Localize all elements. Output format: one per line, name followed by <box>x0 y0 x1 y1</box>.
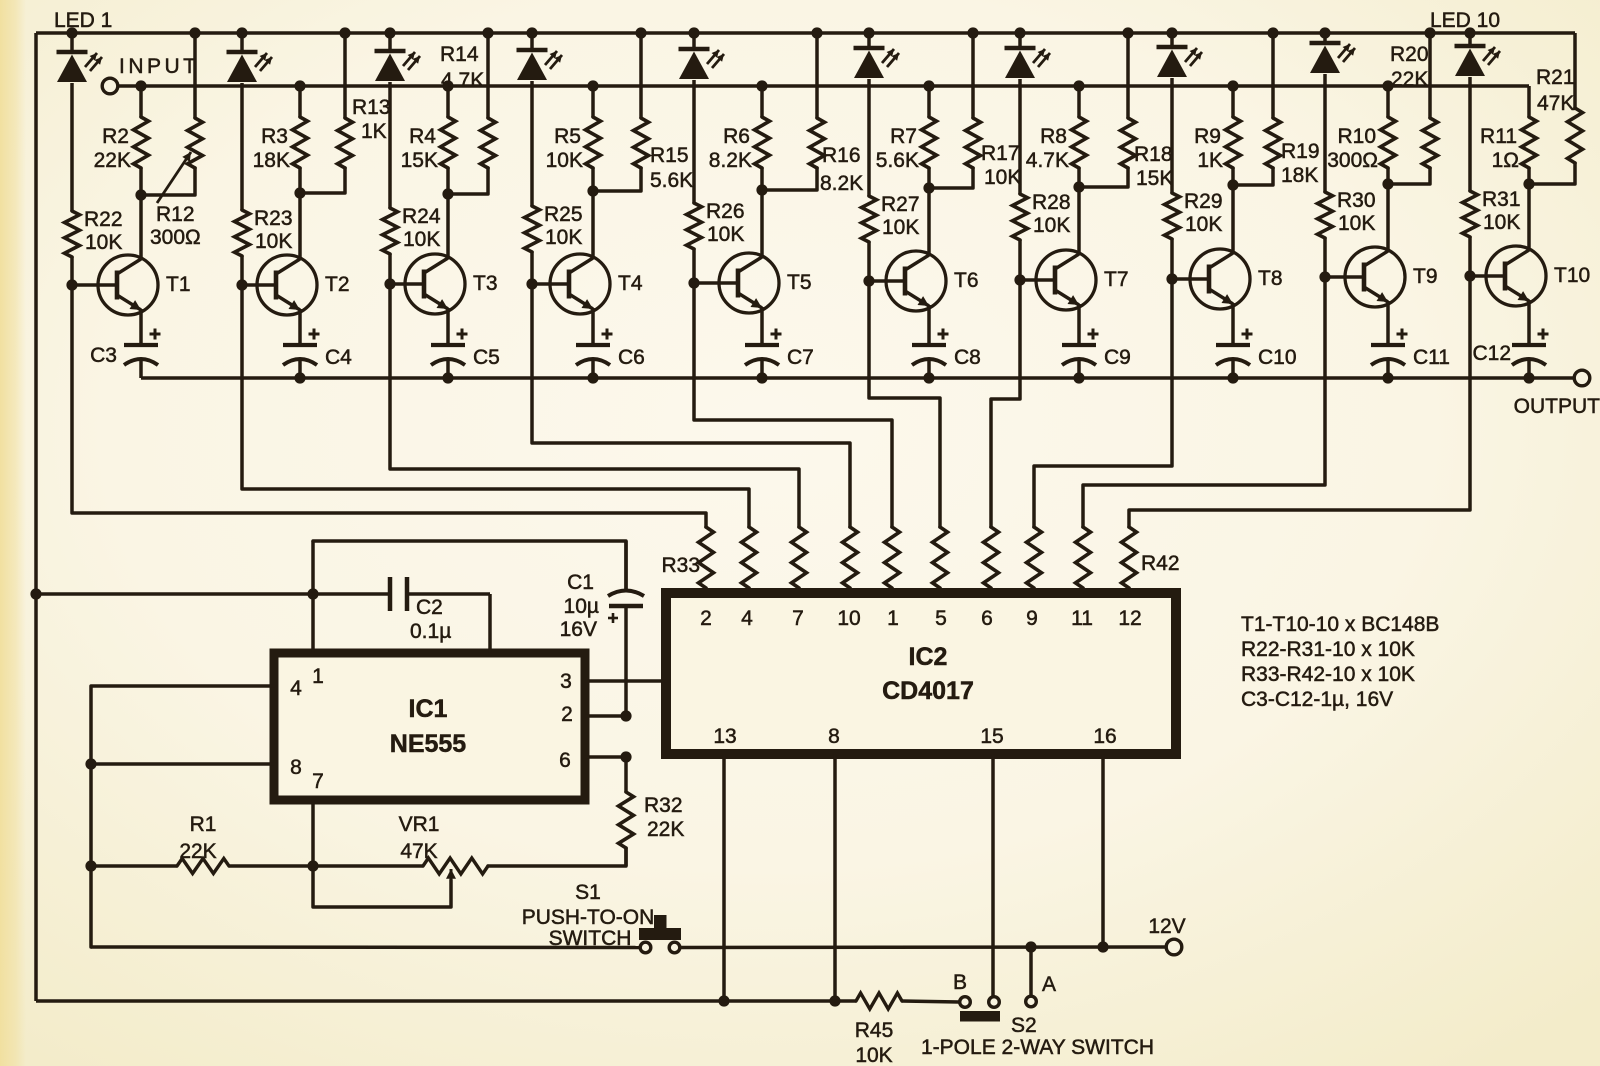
wire emitter of T4 to capacitor C6 <box>591 308 595 345</box>
svg-text:18K: 18K <box>1281 164 1318 187</box>
pin 6 IC2 <box>981 607 993 630</box>
svg-text:T5: T5 <box>787 271 812 294</box>
wire R11 bottom lead to junction <box>1527 168 1531 184</box>
svg-text:R10: R10 <box>1337 125 1376 148</box>
label T3 <box>473 272 498 295</box>
resistor R14 <box>481 118 496 168</box>
svg-text:NE555: NE555 <box>390 730 467 758</box>
node R14 top rail junction <box>482 27 493 38</box>
node junction R7/R17/collector T6 <box>923 182 934 193</box>
label R21 value <box>1536 66 1575 115</box>
resistor R39 <box>984 527 999 594</box>
pin 10 IC2 <box>837 607 860 630</box>
terminal INPUT <box>102 78 118 94</box>
svg-text:LED 10: LED 10 <box>1430 9 1500 32</box>
resistor R21 <box>1568 108 1583 163</box>
resistor R4 <box>441 117 456 168</box>
svg-text:10K: 10K <box>882 216 919 239</box>
transistor T4 <box>550 254 610 314</box>
op-amp IC1 NE555 box <box>274 653 585 800</box>
LED 3 <box>375 33 421 81</box>
node R19 top rail junction <box>1267 27 1278 38</box>
wire R20 top lead from top rail <box>1428 33 1432 118</box>
label R31 value <box>1482 188 1521 234</box>
node base junction T1 <box>66 279 77 290</box>
label SWITCH <box>549 927 632 950</box>
resistor R13 <box>338 118 353 168</box>
node R5 input rail junction <box>587 80 598 91</box>
wire emitter of T2 to capacitor C4 <box>298 309 302 345</box>
wire LED 6 anode to R27 <box>867 79 871 196</box>
wire R10 top lead from input rail <box>1386 86 1390 117</box>
resistor R10 <box>1381 117 1396 168</box>
svg-text:T6: T6 <box>954 269 979 292</box>
wire IC1 pin 7 down <box>311 800 315 866</box>
wire IC2 pin 16 to 12V rail <box>1101 754 1105 947</box>
label C1 value <box>560 571 599 641</box>
svg-text:LED 1: LED 1 <box>54 9 112 32</box>
label R12 value <box>150 203 201 249</box>
wire emitter of T7 to capacitor C9 <box>1077 304 1081 345</box>
svg-text:1: 1 <box>312 665 324 688</box>
wire emitter of T6 to capacitor C8 <box>927 305 931 345</box>
wire base T4 to R36 <box>532 284 850 527</box>
svg-text:T1-T10-10 x BC148B: T1-T10-10 x BC148B <box>1241 613 1439 636</box>
LED 2 <box>227 33 273 82</box>
node LED 6 top rail junction <box>863 27 874 38</box>
pin 5 IC2 <box>935 607 947 630</box>
resistor R3 <box>293 117 308 168</box>
LED 10 <box>1455 33 1501 76</box>
svg-text:300Ω: 300Ω <box>1327 149 1378 172</box>
pin 4 IC1 <box>290 677 302 700</box>
node C12 rail junction <box>1523 372 1534 383</box>
node R10 input rail junction <box>1382 80 1393 91</box>
resistor R31 <box>1463 191 1478 237</box>
svg-text:IC2: IC2 <box>909 643 948 671</box>
resistor R28 <box>1013 194 1028 240</box>
resistor R11 <box>1522 117 1537 168</box>
node R6 input rail junction <box>756 80 767 91</box>
transistor T10 <box>1486 246 1546 306</box>
svg-text:22K: 22K <box>179 840 216 863</box>
capacitor C5 <box>431 329 468 366</box>
wire collector of T4 to junction <box>591 191 595 259</box>
resistor R34 <box>742 527 757 594</box>
LED 7 <box>1005 33 1051 78</box>
svg-text:C9: C9 <box>1104 346 1131 369</box>
svg-text:22K: 22K <box>647 818 684 841</box>
terminal OUTPUT <box>1574 370 1590 386</box>
svg-text:R1: R1 <box>190 813 217 836</box>
pin 4 IC2 <box>741 607 753 630</box>
label OUTPUT <box>1514 395 1600 418</box>
node R9 input rail junction <box>1227 80 1238 91</box>
wire base of T3 <box>390 282 424 286</box>
svg-text:C3: C3 <box>90 344 117 367</box>
node base junction T7 <box>1014 274 1025 285</box>
wire R14 top lead from top rail <box>486 33 490 118</box>
capacitor C6 <box>576 329 613 366</box>
wire base of T2 <box>242 283 276 287</box>
wire base T1 to R33 <box>72 285 706 527</box>
svg-text:9: 9 <box>1026 607 1038 630</box>
label note capacitors <box>1241 688 1393 711</box>
node junction R4/R14/collector T3 <box>442 188 453 199</box>
svg-text:R16: R16 <box>822 144 861 167</box>
resistor R5 <box>586 117 601 168</box>
pin 3 IC1 <box>560 670 572 693</box>
resistor R41 <box>1076 527 1091 594</box>
svg-text:R26: R26 <box>706 200 745 223</box>
label R2 value <box>94 125 131 172</box>
wire R6 top lead from input rail <box>760 86 764 117</box>
label R23 value <box>254 207 293 253</box>
label R42 <box>1141 552 1180 575</box>
node junction R2/R12/collector T1 <box>135 189 146 200</box>
wire emitter of T3 to capacitor C5 <box>446 308 450 345</box>
svg-text:12V: 12V <box>1148 915 1185 938</box>
node R18 top rail junction <box>1122 27 1133 38</box>
capacitor C8 <box>912 329 949 366</box>
label T7 <box>1104 268 1129 291</box>
wire R7 top lead from input rail <box>927 86 931 117</box>
label R11 value <box>1480 125 1519 172</box>
svg-text:R33-R42-10 x 10K: R33-R42-10 x 10K <box>1241 663 1415 686</box>
svg-text:47K: 47K <box>1537 92 1574 115</box>
wire R22 to base of T1 <box>70 257 74 285</box>
wire R16 top lead from top rail <box>815 33 819 118</box>
svg-text:10K: 10K <box>1185 213 1222 236</box>
wire VR1 wiper loop <box>313 866 456 907</box>
node R3 input rail junction <box>294 80 305 91</box>
svg-text:R22-R31-10 x 10K: R22-R31-10 x 10K <box>1241 638 1415 661</box>
label R13 value <box>352 96 391 143</box>
svg-text:C12: C12 <box>1472 342 1511 365</box>
wire R11 top lead from input rail <box>1527 86 1531 117</box>
svg-text:CD4017: CD4017 <box>882 677 974 705</box>
node junction R9/R19/collector T8 <box>1227 179 1238 190</box>
pin 8 IC1 <box>290 756 302 779</box>
svg-text:C1: C1 <box>567 571 594 594</box>
svg-text:4: 4 <box>290 677 302 700</box>
label IC2 <box>909 643 948 671</box>
wire R18 bottom lead to junction of R8 <box>1079 168 1128 187</box>
switch S2 1-pole 2-way <box>960 996 1037 1021</box>
wire collector of T9 to junction <box>1386 184 1390 252</box>
node R8 input rail junction <box>1073 80 1084 91</box>
svg-text:C3-C12-1µ, 16V: C3-C12-1µ, 16V <box>1241 688 1393 711</box>
node base junction T6 <box>863 275 874 286</box>
svg-text:PUSH-TO-ON: PUSH-TO-ON <box>522 906 655 929</box>
svg-text:R17: R17 <box>981 142 1020 165</box>
pin 7 IC1 <box>312 770 324 793</box>
svg-text:T3: T3 <box>473 272 498 295</box>
wire left border (top rail to bottom rail) <box>34 33 38 1001</box>
svg-text:6: 6 <box>981 607 993 630</box>
svg-text:C11: C11 <box>1413 346 1450 369</box>
wire bottom rail <box>36 999 856 1003</box>
node junction R8/R18/collector T7 <box>1073 181 1084 192</box>
wire IC2 pin 15 to S2 pole <box>991 754 995 996</box>
node base junction T4 <box>526 278 537 289</box>
wire right border top (top rail corner to R21) <box>1573 33 1577 110</box>
resistor R20 <box>1423 118 1438 168</box>
wire IC1 pin 8 <box>91 762 274 766</box>
wire C6 to common rail <box>591 359 595 378</box>
resistor R35 <box>792 527 807 594</box>
wire LED 5 anode to R26 <box>692 80 696 203</box>
label NE555 <box>390 730 467 758</box>
potentiometer VR1 <box>423 858 488 874</box>
node R16 top rail junction <box>811 27 822 38</box>
label R20 value <box>1390 43 1429 91</box>
label C9 <box>1104 346 1131 369</box>
label PUSH-TO-ON <box>522 906 655 929</box>
wire R24 to base of T3 <box>388 254 392 284</box>
label R25 value <box>544 203 583 249</box>
wire ground to pin1 <box>36 592 313 596</box>
label 12V <box>1148 915 1185 938</box>
label T2 <box>325 273 350 296</box>
label S1 <box>575 881 601 904</box>
wire R7 bottom lead to junction <box>927 168 931 188</box>
label C3 <box>90 344 117 367</box>
node R12 top rail junction <box>189 27 200 38</box>
label LED 1 <box>54 9 112 32</box>
node base junction T8 <box>1166 273 1177 284</box>
node pin7 junction R1/VR1 <box>307 860 318 871</box>
svg-text:47K: 47K <box>400 840 437 863</box>
node R20 top rail junction <box>1424 27 1435 38</box>
svg-text:T1: T1 <box>166 273 191 296</box>
node R1 left junction <box>85 860 96 871</box>
wire VR1 right to R32 <box>488 848 626 866</box>
pin 9 IC2 <box>1026 607 1038 630</box>
svg-text:10K: 10K <box>707 223 744 246</box>
wire R4 top lead from input rail <box>446 86 450 117</box>
wire R13 bottom lead to junction of R3 <box>300 168 345 193</box>
svg-text:5: 5 <box>935 607 947 630</box>
wire C10 to common rail <box>1231 359 1235 378</box>
node pin16 12V rail junction <box>1097 941 1108 952</box>
wire collector of T6 to junction <box>927 188 931 256</box>
svg-text:13: 13 <box>713 725 736 748</box>
svg-text:S2: S2 <box>1011 1014 1037 1037</box>
wire pin4 column to S1 <box>91 945 640 949</box>
label R3 value <box>253 125 290 172</box>
svg-text:5.6K: 5.6K <box>876 149 919 172</box>
svg-text:10K: 10K <box>1338 212 1375 235</box>
transistor T5 <box>719 253 779 313</box>
capacitor C7 <box>745 329 782 366</box>
wire LED 8 anode to R29 <box>1170 78 1174 193</box>
node junction R10/R20/collector T9 <box>1382 178 1393 189</box>
wire collector of T8 to junction <box>1231 185 1235 254</box>
wire emitter of T8 to capacitor C10 <box>1231 303 1235 345</box>
wire R10 bottom lead to junction <box>1386 168 1390 184</box>
wire R17 bottom lead to junction of R7 <box>929 168 973 188</box>
wire R9 top lead from input rail <box>1231 86 1235 117</box>
resistor R33 <box>699 527 714 594</box>
label R45 value <box>855 1019 894 1066</box>
node C8 rail junction <box>923 372 934 383</box>
svg-text:R30: R30 <box>1337 189 1376 212</box>
resistor R23 <box>235 210 250 256</box>
wire R23 to base of T2 <box>240 256 244 285</box>
wire R30 to base of T9 <box>1323 238 1327 277</box>
node junction R6/R16/collector T5 <box>756 184 767 195</box>
label R33 <box>661 554 700 577</box>
wire IC2 pin 8 to bottom rail <box>833 754 837 1001</box>
svg-text:8.2K: 8.2K <box>820 172 863 195</box>
svg-text:R28: R28 <box>1032 191 1071 214</box>
label T5 <box>787 271 812 294</box>
transistor T3 <box>405 254 465 314</box>
wire R1/VR1 line left <box>91 864 177 868</box>
svg-text:OUTPUT: OUTPUT <box>1514 395 1600 418</box>
node pin2 junction <box>620 710 631 721</box>
wire base of T10 <box>1470 274 1505 278</box>
wire collector of T3 to junction <box>446 194 450 259</box>
label C4 <box>325 346 352 369</box>
label R28 value <box>1032 191 1071 237</box>
svg-text:1: 1 <box>887 607 899 630</box>
trimmer arrow R12 <box>157 152 191 203</box>
node R2 input rail junction <box>135 80 146 91</box>
wire C3 to common rail <box>139 359 143 378</box>
svg-text:22K: 22K <box>94 149 131 172</box>
wire base T5 to R37 <box>694 283 892 527</box>
svg-text:300Ω: 300Ω <box>150 226 201 249</box>
wire R14 bottom lead to junction of R4 <box>448 168 488 194</box>
wire R2 bottom lead to junction <box>139 168 143 195</box>
wire R27 to base of T6 <box>867 242 871 281</box>
pin 6 IC1 <box>559 749 571 772</box>
svg-text:R3: R3 <box>261 125 288 148</box>
svg-text:18K: 18K <box>253 149 290 172</box>
wire emitter of T10 to capacitor C12 <box>1527 300 1531 345</box>
pin 8 IC2 <box>828 725 840 748</box>
label R27 value <box>881 193 920 239</box>
resistor R1 <box>177 859 229 874</box>
label C10 <box>1258 346 1297 369</box>
svg-text:INPUT: INPUT <box>119 55 200 78</box>
node junction R3/R13/collector T2 <box>294 187 305 198</box>
resistor R32 <box>619 757 634 866</box>
svg-text:1K: 1K <box>1197 149 1223 172</box>
wire collector of T2 to junction <box>298 193 302 260</box>
svg-text:10: 10 <box>837 607 860 630</box>
pin 7 IC2 <box>792 607 804 630</box>
svg-text:1Ω: 1Ω <box>1492 149 1519 172</box>
wire collector of T10 to junction <box>1527 184 1531 251</box>
wire base of T5 <box>694 281 738 285</box>
node LED 3 top rail junction <box>384 27 395 38</box>
wire base T8 to R40 <box>1034 279 1172 527</box>
node base junction T9 <box>1319 271 1330 282</box>
wire emitter of T5 to capacitor C7 <box>760 307 764 345</box>
wire R18 top lead from top rail <box>1126 33 1130 118</box>
label IC1 <box>409 695 448 723</box>
resistor R38 <box>933 527 948 594</box>
wire S2 terminal A to 12V rail <box>1029 947 1033 996</box>
svg-text:8: 8 <box>290 756 302 779</box>
resistor R25 <box>525 206 540 252</box>
label R15 value <box>650 144 693 192</box>
wire base of T4 <box>532 282 569 286</box>
label C5 <box>473 346 500 369</box>
wire IC1 pin 2 <box>585 714 626 718</box>
svg-text:R9: R9 <box>1194 125 1221 148</box>
node C11 rail junction <box>1382 372 1393 383</box>
wire R19 bottom lead to junction of R9 <box>1233 168 1273 185</box>
svg-text:3: 3 <box>560 670 572 693</box>
wire base of T7 <box>1020 278 1055 282</box>
capacitor C9 <box>1062 329 1099 366</box>
switch S1 push-to-on <box>639 915 681 953</box>
wire C2 loop top <box>313 541 626 589</box>
wire LED 9 anode to R30 <box>1323 74 1327 192</box>
label C7 <box>787 346 814 369</box>
wire IC2 pin 13 to bottom rail <box>722 754 726 1001</box>
resistor R8 <box>1072 117 1087 168</box>
svg-text:10K: 10K <box>1483 211 1520 234</box>
svg-text:10K: 10K <box>546 149 583 172</box>
node LED 1 top rail junction <box>66 27 77 38</box>
label B <box>953 971 967 994</box>
wire collector of T7 to junction <box>1077 187 1081 255</box>
wire R29 to base of T8 <box>1170 239 1174 279</box>
node base junction T5 <box>688 277 699 288</box>
wire R8 top lead from input rail <box>1077 86 1081 117</box>
wire IC1 pin 6 <box>585 755 626 759</box>
node R7 input rail junction <box>923 80 934 91</box>
svg-text:B: B <box>953 971 967 994</box>
label CD4017 <box>882 677 974 705</box>
wire base T2 to R34 <box>242 285 749 527</box>
wire C7 to common rail <box>760 359 764 378</box>
resistor R27 <box>862 196 877 242</box>
transistor T8 <box>1190 249 1250 309</box>
node R17 top rail junction <box>967 27 978 38</box>
svg-text:R12: R12 <box>156 203 195 226</box>
wire IC1 pin 4 <box>91 686 274 947</box>
svg-text:R11: R11 <box>1480 125 1517 148</box>
wire R26 to base of T5 <box>692 249 696 283</box>
svg-text:R15: R15 <box>650 144 689 167</box>
svg-text:10µ: 10µ <box>564 595 599 618</box>
resistor R26 <box>687 203 702 249</box>
resistor R22 <box>65 211 80 257</box>
capacitor C12 <box>1512 329 1549 366</box>
label R26 value <box>706 200 745 246</box>
resistor R42 <box>1122 527 1137 594</box>
svg-text:22K: 22K <box>1391 68 1428 91</box>
label R7 value <box>876 125 919 172</box>
wire IC1 pin 1 up to C2 loop <box>311 541 315 653</box>
wire emitter of T1 to capacitor C3 <box>139 309 143 345</box>
svg-text:8: 8 <box>828 725 840 748</box>
node S2 A junction on 12V rail <box>1025 941 1036 952</box>
svg-text:S1: S1 <box>575 881 601 904</box>
svg-text:R19: R19 <box>1281 140 1320 163</box>
wire base of T1 <box>72 283 117 287</box>
svg-text:4: 4 <box>741 607 753 630</box>
svg-text:15K: 15K <box>1136 167 1173 190</box>
svg-text:2: 2 <box>561 703 573 726</box>
svg-text:C6: C6 <box>618 346 645 369</box>
